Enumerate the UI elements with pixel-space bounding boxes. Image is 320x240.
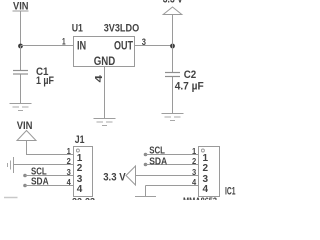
supply VIN (top) [13,0,29,12]
connector IC1 box [199,147,220,197]
svg-text:2: 2 [203,163,209,174]
pin number 3 (IC1 outside) [192,167,196,177]
pin number 3 (J1 inside) [77,174,83,185]
label C1 [36,66,49,78]
wire U1 GND pin to ground [104,67,106,119]
svg-text:22-23: 22-23 [72,196,95,200]
svg-text:4: 4 [93,75,105,83]
svg-text:3: 3 [142,37,146,47]
supply 3.3 V (left of IC1 pin 3) [103,166,135,185]
node B (junction OUT / 3.3V / C2) [170,44,175,49]
svg-text:3.3 V: 3.3 V [163,0,184,5]
value 4.7 µF [175,80,204,92]
pin name GND [94,56,116,68]
svg-text:IN: IN [77,41,86,53]
value text below IC1 (clipped) [183,196,217,207]
svg-text:4: 4 [67,177,71,187]
wire VIN supply to node A [20,11,22,46]
wire 3.3V supply to IC1 pin 3 [136,175,199,177]
pin number 1 (U1 IN) [62,37,66,47]
wire C1 to ground [20,75,22,104]
svg-text:4.7 µF: 4.7 µF [175,80,204,92]
value text below J1 (clipped) [72,196,95,206]
svg-text:2: 2 [192,156,196,166]
wire C2 to ground [172,77,174,114]
svg-text:1: 1 [192,146,196,156]
pin number 3 (U1 OUT) [142,37,146,47]
ground (below U1) [94,119,116,126]
regulator U1 box [74,37,135,67]
svg-text:4: 4 [192,177,196,187]
wire node A to U1 pin 1 [21,45,74,47]
pin number 3 (IC1 inside) [203,174,209,185]
capacitor C1 [13,71,28,75]
svg-text:2: 2 [77,163,83,174]
svg-text:1: 1 [62,37,66,47]
label J1 [75,134,85,146]
pin number 4 (U1 GND, rotated) [93,75,105,83]
pin name OUT [114,41,133,53]
wire IC1 pin 4 to ground [146,186,199,197]
pin number 2 (IC1 outside) [192,156,196,166]
svg-text:MMA8653: MMA8653 [183,196,217,200]
svg-text:1 µF: 1 µF [36,75,54,87]
pin number 2 (J1 outside) [67,156,71,166]
pin number 1 (IC1 inside) [203,153,209,164]
pin number 4 (IC1 outside) [192,177,196,187]
label IC1 [225,186,236,198]
node A (junction VIN / C1 / U1 IN) [18,44,23,49]
svg-text:3: 3 [192,167,196,177]
svg-text:4: 4 [203,184,209,195]
svg-text:U1: U1 [72,23,83,35]
pin-1 indicator circle (J1) [76,149,79,152]
wire 3.3V supply to node B [172,15,174,47]
capacitor C2 [165,73,180,77]
pin number 4 (J1 outside) [67,177,71,187]
svg-text:GND: GND [94,56,116,68]
pin name IN [77,41,86,53]
svg-text:VIN: VIN [17,120,33,132]
svg-text:C2: C2 [184,69,197,81]
svg-text:J1: J1 [75,134,85,146]
connector J1 box [74,147,93,197]
svg-text:3: 3 [67,167,71,177]
ground (below C1) [10,104,32,111]
wire VIN supply to J1 pin 1 [27,141,74,156]
pin number 4 (J1 inside) [77,184,83,195]
svg-text:SDA: SDA [149,155,167,167]
svg-text:4: 4 [77,184,83,195]
value 1 µF [36,75,54,87]
pin number 4 (IC1 inside) [203,184,209,195]
label 3V3LDO [104,23,140,35]
wire node A to C1 [20,46,22,71]
chassis ground (left of J1 pin 2) [8,157,14,173]
wire chassis ground to J1 pin 2 [14,164,74,166]
pin number 2 (IC1 inside) [203,163,209,174]
svg-text:SDA: SDA [31,175,49,187]
label C2 [184,69,197,81]
svg-text:OUT: OUT [114,41,133,53]
svg-text:IC1: IC1 [225,186,236,198]
ground (below C2) [162,114,184,121]
svg-text:3.3 V: 3.3 V [103,172,126,184]
svg-text:1: 1 [67,146,71,156]
supply 3.3 V (top) [163,0,184,15]
wire node B to C2 [172,46,174,73]
pin-1 indicator circle (IC1) [201,149,204,152]
pin number 3 (J1 outside) [67,167,71,177]
net SDA (J1 pin 4) [23,175,73,187]
label U1 [72,23,83,35]
net SCL (J1 pin 3) [23,166,73,178]
svg-text:3V3LDO: 3V3LDO [104,23,140,35]
pin number 1 (IC1 outside) [192,146,196,156]
wire U1 OUT to node B [135,45,173,47]
ground (below IC1 pin 4, clipped) [135,196,156,198]
pin number 1 (J1 inside) [77,153,83,164]
pin number 2 (J1 inside) [77,163,83,174]
supply VIN (bottom) [17,120,36,140]
pin number 1 (J1 outside) [67,146,71,156]
net SCL (IC1 pin 1) [144,145,199,157]
svg-text:2: 2 [67,156,71,166]
cut-off mark bottom-left [4,197,18,199]
net SDA (IC1 pin 2) [144,155,199,167]
